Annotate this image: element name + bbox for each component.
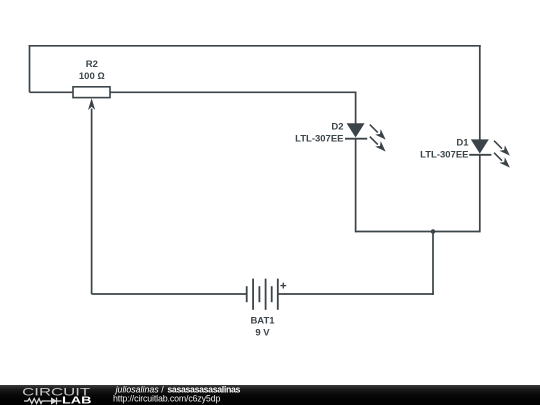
svg-text:9 V: 9 V xyxy=(255,328,270,339)
svg-text:LAB: LAB xyxy=(62,395,92,405)
svg-text:D1: D1 xyxy=(456,138,469,149)
svg-text:D2: D2 xyxy=(331,122,343,133)
svg-text:LTL-307EE: LTL-307EE xyxy=(420,150,468,161)
svg-text:BAT1: BAT1 xyxy=(250,316,275,327)
svg-text:R2: R2 xyxy=(86,59,98,70)
svg-text:LTL-307EE: LTL-307EE xyxy=(295,134,343,145)
svg-text:100 Ω: 100 Ω xyxy=(79,71,105,82)
svg-text:http://circuitlab.com/c6zy5dp: http://circuitlab.com/c6zy5dp xyxy=(113,394,220,404)
